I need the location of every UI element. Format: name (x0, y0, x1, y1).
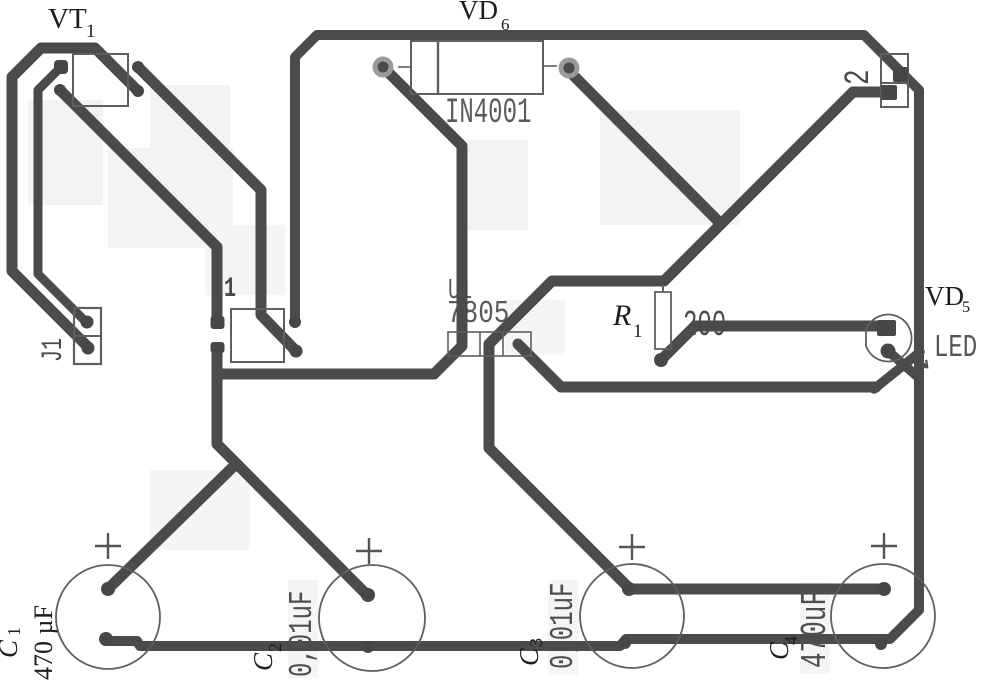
svg-text:1: 1 (224, 274, 236, 305)
capacitor C1 outline (56, 565, 160, 669)
pad VD6 right (cathode) (559, 58, 580, 79)
transistor VT1 body outline (73, 54, 128, 106)
pad P1 lower-left (211, 342, 225, 353)
wire VD6 left pad down to U1 pin1 (383, 67, 462, 345)
C1 plus mark (95, 533, 121, 559)
pad C4 plus (877, 582, 891, 596)
wire outer-left: VT1 pad around top-left corner down to J1 bottom pad (12, 48, 138, 347)
LED VD5 body outline (866, 315, 912, 362)
svg-text:VD: VD (459, 0, 498, 25)
pad C2 minus (362, 641, 374, 653)
svg-text:C: C (0, 639, 23, 658)
pad C1 plus (101, 582, 115, 596)
pad C4 minus (875, 638, 887, 650)
svg-text:VT: VT (48, 3, 87, 35)
svg-text:VD: VD (925, 281, 964, 311)
LED pointer arrow (916, 356, 927, 367)
wire net U1 pin2 to R1 top and connector X2 pad (489, 92, 890, 344)
wire R1 bottom pad to LED anode pad (661, 326, 886, 360)
C3 plus mark (619, 534, 645, 560)
connector J1 outline (74, 308, 101, 364)
pad P1 upper-left (211, 316, 225, 329)
pad LED cathode (881, 344, 896, 359)
pad VT1 D (132, 85, 144, 97)
svg-text:1: 1 (4, 627, 24, 636)
svg-text:470 µF: 470 µF (29, 605, 58, 680)
svg-text:LED: LED (934, 331, 977, 366)
svg-text:1: 1 (633, 321, 643, 342)
svg-text:0,01uF: 0,01uF (283, 591, 321, 677)
svg-text:5: 5 (962, 299, 970, 316)
wire P1 lower-left pad down to fork (217, 348, 367, 595)
pad VD6 left (anode) (373, 57, 394, 78)
pad J1 top (81, 316, 94, 329)
wire U1 pin2 down to C3 positive and C4 positive pads (489, 345, 884, 589)
svg-text:6: 6 (501, 15, 510, 34)
wire VT1 pad B diagonal to component P1 left pad (60, 90, 217, 322)
capacitor C2 outline (319, 565, 425, 671)
resistor R1 body outline (655, 292, 671, 349)
connector X2 outline (881, 54, 908, 107)
svg-text:470uF: 470uF (796, 590, 836, 668)
pad VT1 A (54, 60, 68, 74)
wire LED area riser to right rail (874, 352, 920, 389)
svg-text:2: 2 (840, 69, 880, 85)
component P1 body outline (231, 309, 284, 362)
capacitor C4 outline (831, 564, 935, 668)
svg-text:IN4001: IN4001 (445, 93, 531, 133)
pad X2 top (893, 67, 908, 82)
pad X2 bottom (881, 85, 897, 100)
wire top rail: U1 area pad up over top and right side to bottom rail to C1 negative pad (106, 35, 919, 646)
svg-text:J1: J1 (36, 338, 70, 362)
pad C3 minus (619, 637, 631, 649)
pad C3 plus (622, 582, 636, 596)
faint scan smudge patches (background) (28, 85, 740, 248)
capacitor C3 outline (580, 564, 684, 668)
svg-text:R: R (612, 299, 631, 332)
pads (54, 60, 908, 653)
plus polarity marks (95, 533, 897, 564)
pad J1 bottom (82, 342, 95, 355)
C4 plus mark (871, 533, 897, 559)
wire LED cathode pad to right rail (888, 351, 919, 378)
svg-text:C: C (514, 647, 544, 666)
pad VT1 B (54, 84, 66, 96)
pad P1 upper-right (289, 316, 301, 328)
pad C2 plus (361, 588, 375, 602)
wire VT1 pad C diagonal to component P1 inner pad (138, 67, 296, 351)
wire U1 pin3 to LED area (518, 344, 876, 387)
pad LED anode (877, 320, 896, 336)
pad R1 bottom (654, 353, 668, 367)
wire horizontal mid-left to U1 pin1 (219, 346, 462, 374)
svg-text:2: 2 (265, 643, 285, 652)
pad VT1 C (132, 61, 144, 73)
wire fork branch to C1 positive pad (108, 464, 236, 589)
pad C1 minus (99, 632, 113, 646)
svg-text:3: 3 (526, 638, 546, 647)
regulator U1 body outline (448, 332, 531, 356)
diode VD6 body outline (411, 41, 543, 94)
pad P1 lower-right (290, 345, 303, 358)
svg-text:1: 1 (86, 21, 96, 42)
wire inner-left: VT1 pad A down left side to J1 top pad (38, 67, 87, 323)
wire Y-branch to VD6 right pad (569, 71, 721, 224)
svg-text:C: C (248, 652, 278, 671)
svg-text:0,01uF: 0,01uF (544, 583, 582, 669)
C2 plus mark (356, 538, 382, 564)
